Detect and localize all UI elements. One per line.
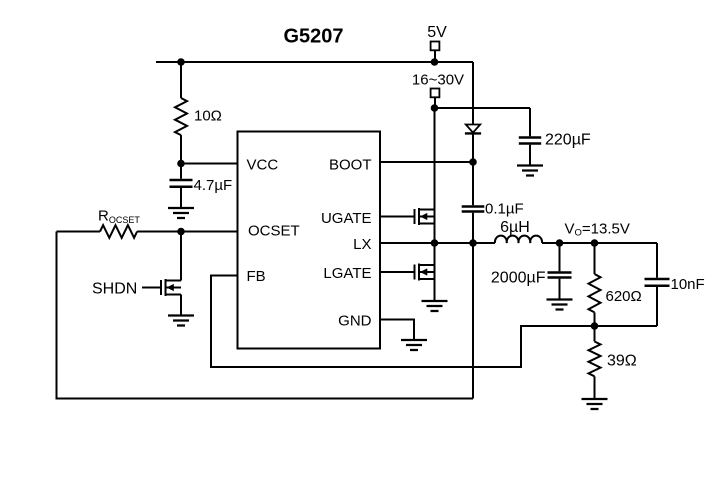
- diode D1 bootstrap: [465, 125, 481, 163]
- wire: VIN vertical down to Q1 drain and LX node: [434, 108, 436, 243]
- svg-text:BOOT: BOOT: [329, 156, 372, 173]
- wire: bootstrap branch from 5V rail to diode anode: [472, 62, 474, 124]
- power terminal 16~30V: [412, 72, 464, 109]
- node: junction of 5V rail and 10Ω resistor: [177, 58, 185, 66]
- capacitor 0.1µF: [462, 162, 524, 243]
- svg-text:620Ω: 620Ω: [606, 288, 642, 305]
- wire: LGATE pin to Q2 gate: [380, 271, 415, 273]
- resistor 10Ω: [175, 62, 222, 164]
- svg-text:16~30V: 16~30V: [412, 72, 464, 89]
- ground (below 220µF): [517, 166, 543, 176]
- wire: BOOT pin to diode cathode: [380, 161, 474, 163]
- wire: 5V top rail: [156, 61, 473, 63]
- transistor Q1 high-side MOSFET: [415, 208, 435, 225]
- resistor R_OCSET: [57, 208, 238, 238]
- wire: UGATE pin to Q1 gate: [380, 216, 415, 218]
- ground (below 2000µF): [547, 300, 573, 310]
- svg-text:5V: 5V: [427, 24, 447, 41]
- resistor R 39Ω: [589, 326, 637, 398]
- node: output rail / 2000µF junction: [556, 239, 564, 247]
- capacitor 2000µF: [491, 243, 572, 299]
- node: LX / 0.1µF / OCSET return junction: [469, 239, 477, 247]
- svg-text:SHDN: SHDN: [92, 281, 137, 298]
- inductor L1 6µH: [495, 219, 542, 243]
- wire: LX pin out to inductor: [380, 242, 496, 244]
- svg-text:LGATE: LGATE: [323, 265, 371, 282]
- node: OCSET / SHDN transistor junction: [177, 228, 185, 236]
- svg-text:FB: FB: [247, 268, 266, 285]
- resistor R 620Ω: [589, 243, 642, 326]
- svg-text:VCC: VCC: [247, 156, 279, 173]
- node: feedback divider junction: [591, 322, 599, 330]
- wire: SHDN label to Q3 gate: [142, 287, 161, 289]
- svg-text:LX: LX: [353, 236, 371, 253]
- svg-text:OCSET: OCSET: [248, 223, 300, 240]
- wire: Q3 drain up to OCSET node: [180, 232, 182, 281]
- svg-text:10nF: 10nF: [671, 276, 705, 293]
- svg-text:39Ω: 39Ω: [607, 353, 637, 370]
- svg-text:10Ω: 10Ω: [194, 108, 222, 125]
- wire: Q3 source down to ground: [180, 295, 182, 315]
- wire: VCC pin: [181, 163, 238, 165]
- wire: FB feedback path from pin around to divider: [211, 276, 595, 368]
- capacitor 4.7µF: [170, 164, 233, 208]
- wire: 10nF bottom to feedback divider node: [595, 325, 658, 327]
- wire: Vo output rail: [542, 242, 657, 244]
- ground (Q3 source): [168, 316, 194, 326]
- wire: GND pin: [380, 320, 415, 340]
- svg-text:UGATE: UGATE: [321, 210, 372, 227]
- svg-text:ROCSET: ROCSET: [98, 208, 140, 225]
- svg-text:VO=13.5V: VO=13.5V: [565, 220, 630, 238]
- node: VCC / 4.7µF junction: [177, 160, 185, 168]
- svg-text:4.7µF: 4.7µF: [194, 177, 233, 194]
- svg-text:220µF: 220µF: [545, 131, 591, 148]
- wire: OCSET return loop left side and bottom: [57, 232, 474, 399]
- op-amp U1 G5207 controller IC body: [238, 132, 381, 349]
- node: junction of 5V rail and bootstrap diode branch: [431, 58, 439, 66]
- transistor Q2 low-side MOSFET: [415, 264, 435, 281]
- svg-text:2000µF: 2000µF: [491, 269, 546, 286]
- ground (below 4.7µF): [168, 208, 194, 218]
- node: LX / Q1 source / Q2 drain: [431, 239, 439, 247]
- node: BOOT / diode / 0.1µF junction: [469, 158, 477, 166]
- svg-text:G5207: G5207: [283, 26, 343, 48]
- capacitor 220µF: [519, 108, 591, 165]
- transistor Q3 shutdown MOSFET: [161, 279, 181, 296]
- ground (below 39Ω): [582, 399, 608, 409]
- wire: Q2 source down to ground: [434, 243, 436, 300]
- node: output rail / 620Ω junction: [591, 239, 599, 247]
- ground (GND pin): [401, 340, 427, 350]
- svg-text:0.1µF: 0.1µF: [485, 201, 524, 218]
- svg-text:6µH: 6µH: [500, 219, 530, 236]
- wire: 16~30V rail to 220µF capacitor: [435, 107, 531, 109]
- power terminal 5V: [427, 24, 447, 62]
- svg-text:GND: GND: [338, 312, 372, 329]
- capacitor 10nF: [645, 243, 705, 326]
- wire: LX node down to OCSET return: [472, 243, 474, 399]
- node: junction 16~30V input rail: [431, 104, 439, 112]
- ground (Q2 source): [422, 301, 448, 311]
